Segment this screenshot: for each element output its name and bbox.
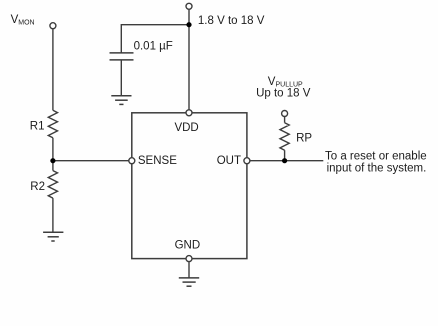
svg-text:0.01 µF: 0.01 µF	[134, 40, 173, 52]
svg-text:R1: R1	[30, 120, 45, 132]
node (supply junction)	[186, 22, 191, 27]
capacitor C1 0.01 uF	[110, 53, 134, 60]
wire (supply junction to capacitor)	[121, 25, 189, 53]
wire (VMON terminal to R1)	[52, 29, 54, 111]
svg-text:SENSE: SENSE	[138, 155, 177, 167]
svg-text:To a reset or enable: To a reset or enable	[325, 150, 427, 162]
resistor R2	[48, 171, 57, 199]
svg-text:GND: GND	[175, 239, 201, 251]
pin GND	[186, 256, 192, 262]
node (R1/R2/SENSE junction)	[50, 158, 55, 163]
wire (capacitor to ground)	[120, 60, 122, 96]
svg-text:VDD: VDD	[174, 122, 198, 134]
IC U1 body	[132, 113, 247, 259]
wire (R1/R2 junction to SENSE pin)	[53, 160, 129, 162]
svg-text:RP: RP	[296, 133, 312, 145]
ground (below GND pin)	[179, 278, 199, 286]
ground (below R2)	[43, 232, 63, 241]
svg-text:Up to 18 V: Up to 18 V	[256, 88, 311, 100]
wire (RP to OUT net)	[284, 150, 286, 161]
svg-text:OUT: OUT	[217, 155, 241, 167]
resistor R1	[48, 110, 57, 138]
node (RP/OUT junction)	[282, 158, 287, 163]
wire (VPULLUP terminal to RP)	[284, 116, 286, 122]
pin OUT	[244, 158, 250, 164]
wire (R1 to R2 through junction)	[52, 138, 54, 171]
terminal VMON	[50, 23, 56, 29]
resistor RP	[280, 123, 289, 151]
wire (GND pin to ground)	[188, 262, 190, 278]
svg-text:VPULLUP: VPULLUP	[268, 76, 303, 89]
svg-text:R2: R2	[30, 181, 45, 193]
wire (supply terminal down to VDD pin)	[188, 9, 190, 110]
terminal 1.8V supply	[186, 3, 192, 9]
svg-text:input of the system.: input of the system.	[327, 163, 427, 175]
ground (below capacitor)	[111, 96, 131, 105]
svg-text:VMON: VMON	[11, 14, 35, 27]
pin SENSE	[129, 158, 135, 164]
pin VDD	[186, 110, 192, 116]
wire (OUT pin to system input)	[250, 160, 323, 162]
svg-text:1.8 V to 18 V: 1.8 V to 18 V	[198, 15, 265, 27]
wire (R2 to ground)	[52, 198, 54, 232]
terminal VPULLUP	[282, 111, 288, 117]
